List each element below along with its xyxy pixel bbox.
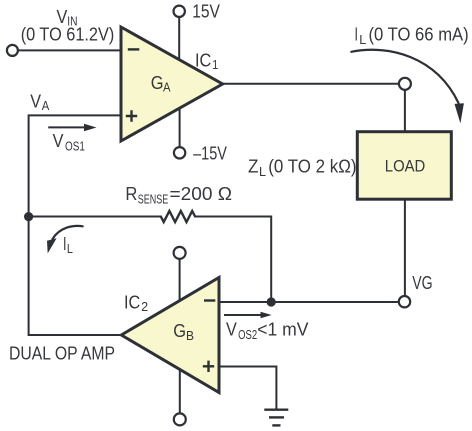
- label ZL: [248, 157, 357, 180]
- wire IC2 plus input to ground: [219, 367, 276, 410]
- svg-text:LOAD: LOAD: [385, 157, 426, 176]
- node VG open circle: [399, 296, 410, 307]
- load box ZL: [357, 132, 451, 200]
- svg-text:DUAL OP AMP: DUAL OP AMP: [9, 344, 115, 364]
- arrow IL top right curved: [351, 50, 458, 103]
- svg-text:G: G: [151, 73, 164, 93]
- IC2 minus pin symbol: [204, 299, 215, 301]
- terminal +15V: [174, 6, 185, 17]
- wire node to LOAD top: [404, 90, 406, 132]
- wire IC2 bottom power: [179, 369, 181, 413]
- label VOS2 value: [226, 320, 309, 342]
- arrow VOS2: [224, 314, 262, 316]
- svg-text:OS2: OS2: [238, 328, 257, 342]
- resistor RSENSE zigzag: [161, 211, 195, 222]
- svg-text:I: I: [355, 24, 359, 44]
- ground: [264, 410, 288, 426]
- IC1 minus pin symbol: [128, 48, 140, 50]
- svg-text:OS1: OS1: [65, 140, 85, 154]
- svg-text:Z: Z: [248, 157, 259, 177]
- svg-text:B: B: [186, 329, 194, 343]
- wire 15V to IC1 top: [178, 17, 180, 60]
- label VIN: [21, 7, 115, 45]
- wire junction up to sense corner: [195, 217, 271, 303]
- svg-text:<1 mV: <1 mV: [257, 320, 308, 340]
- IC2 plus pin symbol: [203, 361, 214, 372]
- svg-text:(0 TO 61.2V): (0 TO 61.2V): [21, 25, 115, 45]
- svg-text:V: V: [53, 131, 64, 151]
- svg-text:15V: 15V: [192, 1, 220, 21]
- terminal IC2 bottom power: [174, 413, 186, 425]
- label IL bottom: [63, 234, 73, 256]
- junction node VA rail: [24, 212, 33, 221]
- label GA: [151, 73, 171, 95]
- wire IC2 top power: [179, 259, 181, 301]
- op-amp IC2 triangle: [121, 278, 219, 393]
- svg-text:–15V: –15V: [193, 144, 227, 164]
- wire VA loop: IC1 plus input, left rail, to IC2 output: [29, 115, 122, 335]
- svg-text:1: 1: [212, 58, 218, 72]
- op-amp IC1 triangle: [121, 27, 223, 141]
- svg-text:(0 TO 66 mA): (0 TO 66 mA): [369, 24, 469, 44]
- svg-text:A: A: [42, 99, 50, 113]
- svg-text:L: L: [259, 165, 266, 179]
- wire sense left segment: [29, 216, 161, 218]
- svg-text:IC: IC: [124, 292, 140, 312]
- node output open circle: [399, 78, 411, 90]
- label IL top: [355, 24, 469, 47]
- svg-text:L: L: [359, 33, 366, 47]
- wire input terminal to IC1 minus: [18, 49, 121, 51]
- arrow IL bottom left curved: [53, 226, 83, 239]
- junction node IC2 minus: [267, 297, 276, 306]
- wire VG node to IC2 minus input: [219, 301, 399, 303]
- svg-text:IC: IC: [195, 50, 211, 70]
- terminal VIN: [7, 45, 18, 56]
- label IC1: [195, 50, 218, 72]
- svg-text:V: V: [30, 92, 41, 112]
- svg-text:SENSE: SENSE: [138, 192, 169, 206]
- label RSENSE value: [125, 184, 232, 207]
- label VA: [30, 92, 50, 114]
- svg-text:V: V: [226, 320, 237, 340]
- wire IC1 bottom to -15V: [179, 108, 181, 147]
- svg-text:L: L: [67, 242, 73, 256]
- wire IC1 output to node: [223, 83, 399, 85]
- terminal IC2 top power: [174, 247, 186, 259]
- svg-text:VG: VG: [412, 273, 432, 293]
- svg-text:=200 Ω: =200 Ω: [170, 184, 233, 204]
- terminal -15V: [174, 147, 185, 158]
- label GB: [173, 321, 194, 343]
- label IC2: [124, 292, 148, 314]
- wire LOAD bottom to VG node: [404, 199, 406, 296]
- label VOS1: [53, 131, 85, 154]
- svg-text:(0 TO 2 kΩ): (0 TO 2 kΩ): [268, 157, 356, 177]
- IC1 plus pin symbol: [126, 110, 137, 121]
- svg-text:2: 2: [141, 300, 148, 314]
- svg-text:A: A: [163, 81, 171, 95]
- arrow VOS1: [48, 126, 85, 128]
- svg-text:R: R: [125, 184, 137, 204]
- svg-text:G: G: [173, 321, 186, 341]
